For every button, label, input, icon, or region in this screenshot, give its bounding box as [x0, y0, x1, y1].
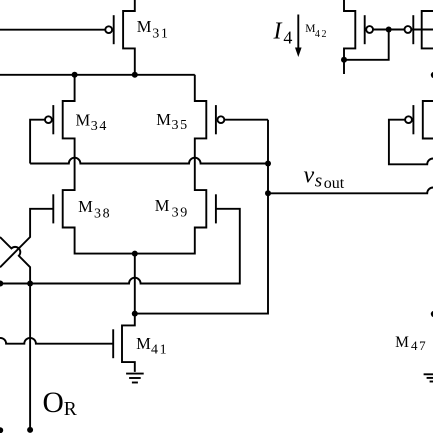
- M41 channel with drain/source leads: [122, 314, 135, 372]
- node dot M41 drain: [132, 311, 138, 317]
- M43 gate bubble: [405, 26, 412, 33]
- M42 channel with source/drain leads: [344, 0, 355, 74]
- svg-text:4: 4: [283, 27, 292, 47]
- node dot X/M39 gate bus: [27, 281, 33, 287]
- wire output column from M35 gate to M41 drain: [135, 120, 268, 314]
- M34 gate plate: [52, 105, 54, 134]
- M35 gate plate: [215, 105, 217, 134]
- svg-text:out: out: [324, 175, 345, 192]
- wire top rail: [0, 74, 195, 76]
- wire M31 gate lead: [0, 29, 105, 31]
- I4 arrow: [297, 15, 299, 49]
- wire vsout to right edge with hop: [268, 187, 433, 193]
- node dot M42 drain: [341, 57, 347, 63]
- svg-text:38: 38: [94, 206, 111, 221]
- svg-text:39: 39: [172, 205, 189, 220]
- svg-text:v: v: [304, 163, 315, 189]
- wire right stack: M35 channel + M39 channel + source run: [135, 75, 207, 254]
- M43 channel: [422, 11, 433, 48]
- wire M35 gate lead: [224, 119, 268, 121]
- svg-text:R: R: [64, 399, 77, 420]
- svg-text:31: 31: [152, 26, 169, 41]
- M42 gate bubble: [366, 26, 373, 33]
- M38 gate plate: [52, 194, 54, 223]
- wire M44 gate loop down with edge hop: [389, 120, 433, 165]
- svg-text:47: 47: [411, 338, 427, 353]
- transistor M38: [0, 194, 111, 267]
- svg-text:s: s: [315, 170, 322, 191]
- ground M41: [126, 374, 144, 383]
- M31 channel with drain/source leads: [123, 0, 135, 75]
- M44 gate plate: [412, 105, 414, 134]
- transistor M39: [0, 194, 240, 283]
- node dot bottom left edge: [0, 427, 3, 433]
- wire M39 gate loop down-left with hop over centre column: [0, 209, 240, 284]
- node dot right edge y=314: [431, 311, 433, 317]
- node dot rail/M34 drain: [72, 72, 78, 78]
- M39 gate plate: [215, 194, 217, 223]
- node dot gate bus / output column: [265, 161, 271, 167]
- svg-text:M: M: [76, 111, 91, 130]
- node dot M38/M39 common source: [132, 251, 138, 257]
- transistor M34: [30, 105, 108, 163]
- node dot rail/M31 source: [132, 72, 138, 78]
- wire M42 gate to M43: [373, 29, 405, 31]
- svg-text:O: O: [43, 387, 64, 419]
- transistor M35: [156, 105, 268, 134]
- current source I4: [273, 15, 302, 58]
- svg-text:M: M: [155, 196, 170, 215]
- M31 gate bubble: [105, 26, 112, 33]
- wire M42 diode connection: [344, 30, 389, 60]
- transistor M31: [0, 0, 170, 75]
- M43 gate plate: [412, 15, 414, 44]
- node dot bottom x=30: [27, 427, 33, 433]
- wire gate bus y=163.5 with hops: [30, 158, 268, 164]
- svg-text:42: 42: [315, 29, 328, 40]
- wire M43 bulk/gate continuation: [411, 29, 433, 31]
- svg-text:35: 35: [172, 118, 189, 133]
- M42 gate plate: [364, 15, 366, 44]
- transistor M43 top right: [405, 11, 433, 48]
- svg-text:34: 34: [91, 119, 108, 134]
- M44 gate bubble: [405, 116, 412, 123]
- wire M34 gate loop down: [30, 120, 45, 164]
- node dot right edge y=75: [431, 72, 433, 78]
- svg-text:41: 41: [151, 342, 168, 357]
- svg-text:M: M: [395, 334, 409, 351]
- svg-text:M: M: [78, 197, 93, 216]
- svg-text:M: M: [156, 110, 171, 129]
- node dot M42 gate bus: [386, 27, 392, 33]
- wire centre column M38/M39 sources to M41 drain: [134, 254, 136, 314]
- wire left stack: M34 channel + M38 channel + source run: [63, 75, 135, 254]
- ground M47 (clipped at edge): [424, 374, 433, 381]
- svg-text:M: M: [136, 334, 151, 353]
- M35 gate bubble: [218, 116, 225, 123]
- svg-text:I: I: [273, 19, 283, 45]
- wire M41 gate lead with hops: [0, 338, 113, 344]
- M44 channel: [423, 101, 433, 139]
- transistor M42: [305, 0, 404, 74]
- M31 gate plate: [113, 15, 115, 44]
- transistor M41: [0, 314, 168, 372]
- node dot vsout / output column: [265, 190, 271, 196]
- wire crossing X left branch: [0, 237, 30, 429]
- M41 gate plate: [112, 329, 114, 358]
- wire M38 gate loop to crossing: [0, 209, 53, 267]
- node dot left column/M39 gate bus: [0, 281, 3, 287]
- svg-text:M: M: [137, 17, 152, 36]
- transistor M44 right middle: [389, 101, 433, 164]
- M34 gate bubble: [45, 116, 52, 123]
